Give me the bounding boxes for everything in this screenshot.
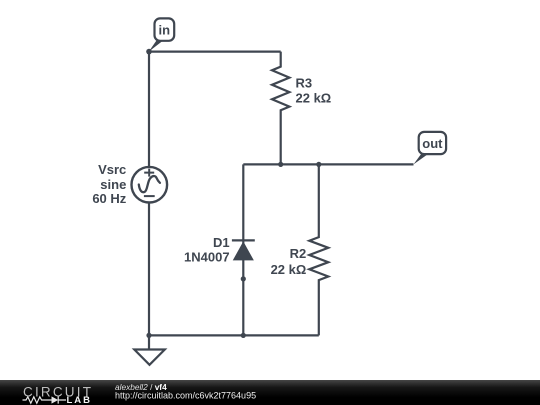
wire: mid horizontal from diode branch to out: [243, 163, 413, 165]
resistor R3: [272, 52, 289, 165]
svg-text:22 kΩ: 22 kΩ: [296, 90, 332, 105]
value label D1: [184, 235, 230, 265]
svg-text:R2: R2: [290, 246, 307, 261]
junction: node in: [146, 49, 152, 55]
wire: node in down to Vsrc top: [148, 52, 150, 167]
junction: diode anode node: [241, 276, 246, 281]
wire: Vsrc bottom down to ground bus: [148, 203, 150, 336]
svg-text:1N4007: 1N4007: [184, 250, 230, 265]
junction: ground bus left: [146, 333, 151, 338]
svg-text:http://circuitlab.com/c6vk2t77: http://circuitlab.com/c6vk2t7764u95: [115, 391, 256, 401]
junction: R2 top / mid wire: [316, 162, 321, 167]
svg-text:R3: R3: [296, 75, 313, 90]
svg-text:60 Hz: 60 Hz: [92, 191, 126, 206]
junction: diode branch / bottom bus: [241, 333, 246, 338]
svg-text:22 kΩ: 22 kΩ: [271, 262, 307, 277]
wire: bottom bus horizontal: [149, 334, 319, 336]
svg-text:Vsrc: Vsrc: [98, 162, 126, 177]
svg-text:sine: sine: [100, 177, 126, 192]
footer bar: [0, 380, 540, 405]
wire: top horizontal from node in to R3: [149, 50, 281, 52]
voltage source Vsrc: [132, 167, 168, 203]
junction: R3 bottom / mid wire: [278, 162, 283, 167]
credit text: [115, 382, 256, 401]
resistor R2: [309, 164, 328, 335]
node out (flag): [414, 132, 447, 165]
ground: [134, 335, 165, 364]
value label R3: [296, 75, 332, 105]
node in (flag): [149, 18, 174, 51]
diode D1: [232, 240, 255, 260]
CircuitLab logo: [23, 384, 94, 405]
svg-text:out: out: [422, 136, 443, 151]
svg-text:LAB: LAB: [67, 395, 93, 405]
value label Vsrc: [92, 162, 126, 206]
wire: diode branch vertical: [242, 164, 244, 335]
value label R2: [271, 246, 307, 277]
svg-text:in: in: [159, 22, 171, 37]
svg-text:D1: D1: [213, 235, 230, 250]
